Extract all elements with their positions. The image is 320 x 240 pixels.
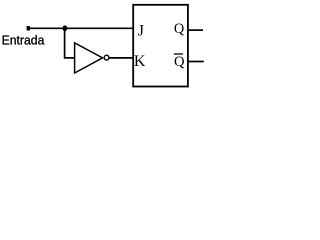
junction node [63,25,68,31]
wire Q-bar output [189,61,204,63]
svg-text:K: K [134,53,146,70]
overbar of Q-bar [174,53,183,55]
svg-text:Q: Q [174,21,185,37]
wire junction down to inverter input [65,28,75,58]
inverter bubble [104,55,109,60]
svg-text:Entrada: Entrada [2,32,46,47]
svg-text:Q: Q [174,54,185,70]
wire inverter to K pin [109,57,134,59]
JK flip-flop U1 box [133,5,188,87]
inverter U2 triangle [75,43,103,73]
input terminal dot [27,26,30,30]
wire input to J pin [29,27,134,29]
svg-text:J: J [138,23,144,40]
wire Q output [189,29,203,31]
